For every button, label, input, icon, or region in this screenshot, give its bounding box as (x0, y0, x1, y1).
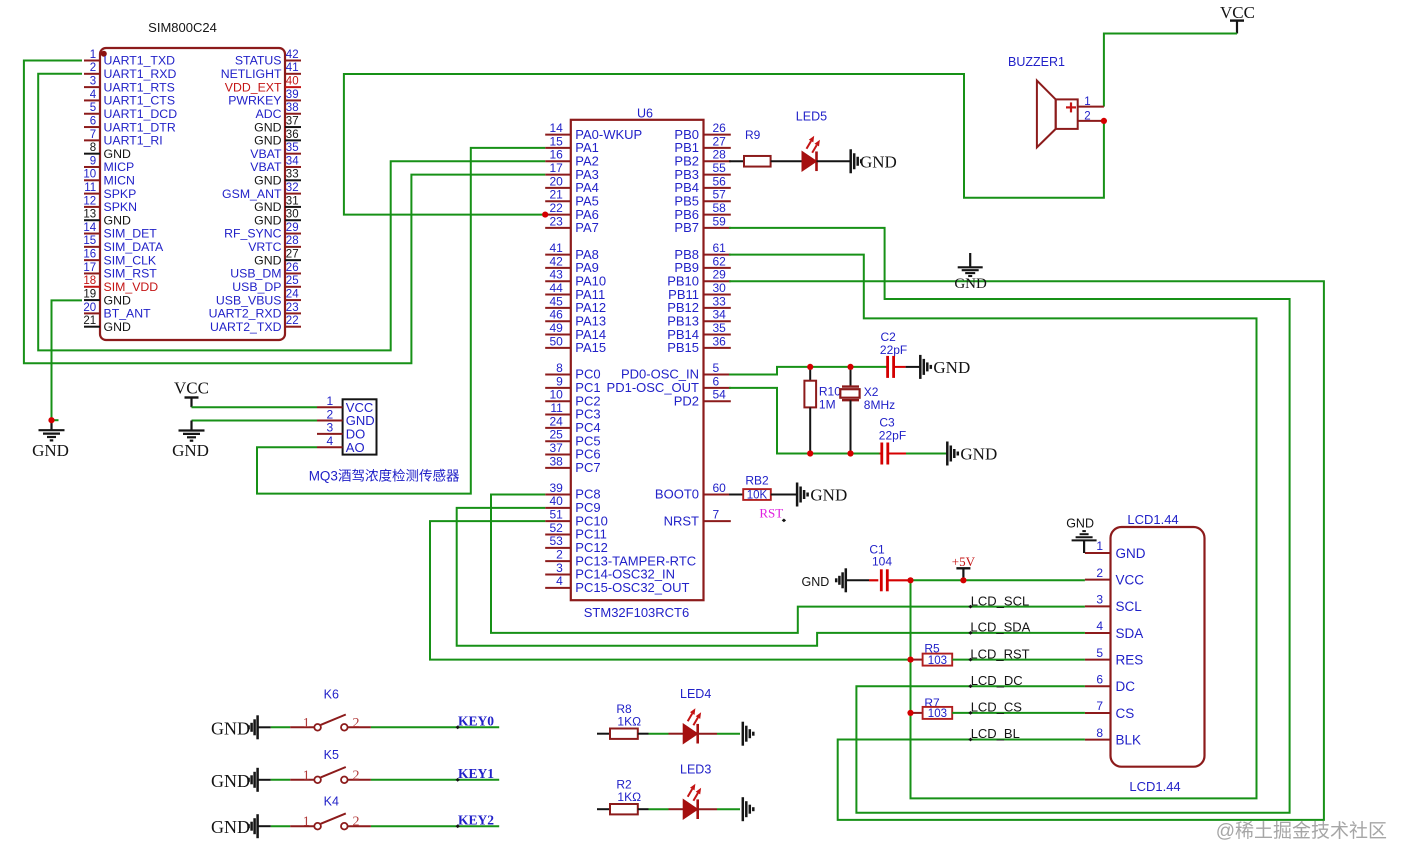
svg-text:21: 21 (549, 188, 563, 202)
svg-text:20: 20 (83, 302, 96, 314)
svg-text:22pF: 22pF (880, 343, 907, 357)
svg-text:27: 27 (713, 134, 727, 148)
svg-text:7: 7 (713, 508, 720, 522)
wire LCD BLK to PB10 (729, 281, 1324, 820)
svg-text:LED5: LED5 (796, 109, 827, 123)
wire switch K5 to net KEY1 (371, 779, 499, 781)
svg-text:RST: RST (759, 506, 783, 521)
svg-text:36: 36 (713, 334, 727, 348)
wire R9 to LED5 (771, 160, 802, 162)
wire PB2 to R9 (729, 160, 744, 162)
svg-text:52: 52 (549, 521, 563, 535)
svg-text:7: 7 (90, 129, 96, 141)
svg-text:ADC: ADC (256, 107, 282, 121)
svg-text:4: 4 (1096, 619, 1103, 633)
svg-text:USB_DP: USB_DP (232, 280, 281, 294)
capacitor C1 104 (869, 543, 911, 592)
svg-text:GND: GND (104, 293, 131, 307)
wire PA1 to MQ3 AO (257, 148, 545, 494)
wire LED3 to GND (698, 808, 717, 810)
svg-text:33: 33 (286, 169, 299, 181)
wire UART1_RXD to PA2 (38, 74, 545, 351)
svg-text:39: 39 (549, 481, 563, 495)
resistor R7 103 (911, 696, 953, 720)
ground GND (floating, above PB10 wire) (954, 253, 987, 292)
svg-text:23: 23 (286, 302, 299, 314)
svg-text:1: 1 (326, 394, 333, 408)
svg-text:MICP: MICP (104, 160, 135, 174)
ground GND (LED5) (851, 149, 897, 173)
svg-text:37: 37 (549, 441, 563, 455)
svg-text:DC: DC (1116, 679, 1136, 694)
svg-text:GSM_ANT: GSM_ANT (222, 187, 282, 201)
svg-text:UART2_TXD: UART2_TXD (210, 320, 282, 334)
svg-text:11: 11 (84, 182, 96, 194)
svg-text:SCL: SCL (1116, 599, 1143, 614)
svg-text:10K: 10K (747, 490, 768, 502)
ground GND (BOOT0) (797, 483, 847, 507)
svg-text:PB7: PB7 (674, 220, 699, 235)
svg-text:GND: GND (211, 771, 250, 791)
svg-text:1M: 1M (819, 398, 836, 412)
svg-text:1KΩ: 1KΩ (617, 790, 641, 804)
svg-text:GND: GND (211, 718, 250, 738)
svg-text:51: 51 (549, 508, 563, 522)
junction R10 top (807, 364, 813, 370)
svg-text:GND: GND (1116, 546, 1146, 561)
junction at buzzer pin 2 (1101, 118, 1107, 124)
svg-text:17: 17 (549, 161, 563, 175)
ground GND (switch K5) (211, 768, 258, 792)
svg-text:43: 43 (549, 268, 563, 282)
ground GND (C1, power ground) (802, 568, 846, 592)
svg-text:STM32F103RCT6: STM32F103RCT6 (584, 605, 689, 620)
net label KEY2 (456, 813, 495, 829)
svg-text:8: 8 (90, 142, 96, 154)
svg-text:1: 1 (1096, 539, 1103, 553)
svg-text:8MHz: 8MHz (864, 398, 895, 412)
svg-text:45: 45 (549, 294, 563, 308)
svg-text:33: 33 (713, 294, 727, 308)
wire BOOT0 to RB2 (729, 494, 743, 496)
svg-text:LCD_BL: LCD_BL (971, 726, 1020, 741)
svg-text:44: 44 (549, 281, 563, 295)
svg-text:30: 30 (286, 209, 299, 221)
svg-text:NETLIGHT: NETLIGHT (221, 67, 282, 81)
ground GND (MQ3) (172, 421, 209, 461)
wire PA6 to buzzer pin 2 (344, 74, 1104, 215)
svg-text:VCC: VCC (1116, 572, 1145, 587)
svg-text:7: 7 (1096, 699, 1103, 713)
svg-text:46: 46 (549, 308, 563, 322)
wire R7 to LCD CS (952, 712, 1085, 714)
svg-text:17: 17 (83, 262, 96, 274)
svg-text:SIM_VDD: SIM_VDD (104, 280, 159, 294)
svg-text:2: 2 (556, 548, 563, 562)
svg-text:UART1_DCD: UART1_DCD (104, 107, 178, 121)
svg-text:19: 19 (83, 288, 96, 300)
svg-text:2: 2 (353, 768, 360, 783)
svg-text:GND: GND (960, 445, 997, 464)
svg-text:R9: R9 (745, 128, 761, 142)
svg-text:26: 26 (286, 262, 299, 274)
svg-text:K6: K6 (324, 687, 339, 701)
junction C1 / +5V rail (907, 577, 913, 583)
power port VCC (top right) (1220, 3, 1255, 34)
junction at SIM GND stem (48, 417, 54, 423)
svg-text:GND: GND (254, 253, 281, 267)
wire rail C1 junction down to PB8 loop (729, 255, 1256, 799)
svg-text:UART1_RXD: UART1_RXD (104, 67, 177, 81)
capacitor C3 22pF (879, 416, 906, 465)
junction +5V stem (960, 577, 966, 583)
svg-text:SPKN: SPKN (104, 200, 138, 214)
ground GND (C3) (947, 442, 997, 466)
svg-text:GND: GND (860, 152, 897, 171)
svg-text:VBAT: VBAT (250, 147, 282, 161)
svg-text:PA15: PA15 (575, 340, 606, 355)
svg-text:NRST: NRST (664, 513, 699, 528)
svg-text:GND: GND (254, 173, 281, 187)
svg-text:GND: GND (254, 200, 281, 214)
svg-text:24: 24 (549, 414, 563, 428)
svg-text:BUZZER1: BUZZER1 (1008, 55, 1065, 69)
svg-text:BLK: BLK (1116, 732, 1142, 747)
svg-text:5: 5 (713, 361, 720, 375)
svg-text:PA7: PA7 (575, 220, 599, 235)
wire PD1 to oscillator bottom rail (729, 388, 879, 454)
svg-text:PD2: PD2 (674, 393, 699, 408)
power port VCC (MQ3) (174, 379, 209, 408)
svg-text:LED4: LED4 (680, 687, 711, 701)
svg-text:AO: AO (346, 440, 365, 455)
svg-text:38: 38 (549, 454, 563, 468)
svg-text:GND: GND (954, 276, 987, 292)
ground (for LED3) (743, 797, 754, 821)
net label LCD_RST (968, 646, 1029, 661)
svg-text:GND: GND (211, 817, 250, 837)
wire VCC to MQ3 pin1 (192, 406, 318, 408)
svg-text:42: 42 (549, 254, 563, 268)
net label KEY0 (456, 714, 495, 730)
ground GND (switch K6) (211, 715, 258, 739)
svg-text:1: 1 (303, 768, 310, 783)
svg-text:LCD_DC: LCD_DC (971, 673, 1023, 688)
svg-text:5: 5 (1096, 646, 1103, 660)
net label LCD_BL (968, 726, 1020, 741)
svg-text:1: 1 (90, 49, 96, 61)
svg-text:KEY2: KEY2 (458, 813, 494, 828)
svg-text:RES: RES (1116, 652, 1144, 667)
wire LED5 to GND (817, 160, 851, 162)
svg-text:55: 55 (713, 161, 727, 175)
capacitor C2 22pF (880, 330, 907, 378)
svg-text:GND: GND (104, 213, 131, 227)
svg-text:22: 22 (286, 315, 299, 327)
wire GND to switch K5 (258, 779, 271, 781)
svg-text:22pF: 22pF (879, 429, 906, 443)
svg-text:KEY0: KEY0 (458, 714, 494, 729)
module SIM800C24 (83, 20, 301, 340)
ground GND (SIM pin19) (32, 420, 69, 460)
power port +5V (952, 554, 976, 581)
net label RST on NRST pin (759, 506, 786, 523)
svg-text:53: 53 (549, 534, 563, 548)
svg-text:LCD_SDA: LCD_SDA (970, 620, 1030, 635)
junction R10 bottom (807, 450, 813, 456)
svg-text:6: 6 (713, 374, 720, 388)
svg-text:UART1_CTS: UART1_CTS (104, 94, 176, 108)
svg-text:LCD_SCL: LCD_SCL (971, 593, 1030, 608)
svg-text:42: 42 (286, 49, 299, 61)
svg-text:34: 34 (713, 308, 727, 322)
wire C3 to GND (906, 453, 947, 455)
svg-text:31: 31 (286, 195, 299, 207)
svg-text:PC7: PC7 (575, 460, 600, 475)
svg-text:103: 103 (928, 708, 947, 720)
svg-text:PC15-OSC32_OUT: PC15-OSC32_OUT (575, 580, 689, 595)
svg-text:15: 15 (549, 134, 563, 148)
svg-text:2: 2 (90, 62, 96, 74)
resistor R5 103 (911, 642, 953, 667)
svg-text:LCD_RST: LCD_RST (970, 646, 1029, 661)
svg-text:56: 56 (713, 174, 727, 188)
wire GND to switch K6 (258, 726, 271, 728)
wire SIM pin19 GND to ground (52, 300, 83, 420)
junction X2 bottom (847, 450, 853, 456)
svg-text:K4: K4 (324, 795, 339, 809)
crystal X2 8MHz (840, 367, 895, 454)
wire GND to C1 (846, 579, 869, 581)
svg-text:32: 32 (286, 182, 299, 194)
buzzer BUZZER1 (1008, 55, 1104, 147)
svg-text:41: 41 (286, 62, 299, 74)
wire PC10 to R5 (430, 521, 911, 659)
svg-text:BOOT0: BOOT0 (655, 487, 699, 502)
resistor R10 1M (804, 367, 841, 454)
svg-text:57: 57 (713, 188, 727, 202)
svg-text:58: 58 (713, 201, 727, 215)
svg-text:50: 50 (549, 334, 563, 348)
wire LED4 to GND (698, 733, 717, 735)
svg-text:SIM_DATA: SIM_DATA (104, 240, 164, 254)
svg-text:VRTC: VRTC (248, 240, 281, 254)
net label LCD_SCL (968, 593, 1029, 608)
switch K5 (290, 748, 371, 784)
net label LCD_DC (968, 673, 1022, 688)
svg-text:20: 20 (549, 174, 563, 188)
svg-text:23: 23 (549, 214, 563, 228)
net label KEY1 (456, 766, 495, 782)
junction X2 top (847, 364, 853, 370)
svg-text:VBAT: VBAT (250, 160, 282, 174)
wire R2 to LED3 (638, 808, 649, 810)
svg-text:28: 28 (713, 148, 727, 162)
sensor MQ3 module (309, 394, 460, 484)
svg-text:27: 27 (286, 249, 299, 261)
svg-text:3: 3 (556, 561, 563, 575)
resistor R9 (744, 128, 771, 166)
microcontroller U6 STM32F103RCT6 (545, 107, 731, 621)
svg-text:16: 16 (83, 249, 96, 261)
svg-text:PB15: PB15 (667, 340, 699, 355)
svg-text:21: 21 (83, 315, 96, 327)
junction R7 left (907, 710, 913, 716)
svg-text:22: 22 (549, 201, 563, 215)
svg-text:K5: K5 (324, 748, 339, 762)
svg-text:UART1_TXD: UART1_TXD (104, 54, 176, 68)
svg-text:49: 49 (549, 321, 563, 335)
svg-text:1: 1 (303, 716, 310, 731)
svg-text:GND: GND (32, 441, 69, 460)
wire RB2 to GND (771, 494, 797, 496)
resistor R8 1K (610, 702, 641, 739)
svg-text:14: 14 (83, 222, 96, 234)
svg-text:LCD1.44: LCD1.44 (1127, 512, 1178, 527)
wire lead to resistor R2 (597, 808, 610, 810)
svg-text:VCC: VCC (1220, 3, 1255, 22)
wire PC8 to LCD SCL (491, 495, 1085, 633)
ground GND (switch K4) (211, 814, 258, 838)
svg-text:GND: GND (810, 486, 847, 505)
svg-text:8: 8 (1096, 726, 1103, 740)
svg-text:6: 6 (90, 115, 96, 127)
svg-text:40: 40 (549, 494, 563, 508)
ground (for LED4) (743, 722, 754, 746)
svg-text:10: 10 (83, 169, 96, 181)
svg-text:2: 2 (326, 407, 333, 421)
svg-text:15: 15 (83, 235, 96, 247)
svg-text:GND: GND (1066, 517, 1094, 531)
wire switch K4 to net KEY2 (371, 825, 499, 827)
net label LCD_SDA (968, 620, 1030, 635)
svg-text:+5V: +5V (952, 554, 976, 569)
svg-text:SIM_DET: SIM_DET (104, 227, 158, 241)
svg-text:13: 13 (83, 209, 96, 221)
svg-text:@稀土掘金技术社区: @稀土掘金技术社区 (1216, 820, 1387, 842)
svg-text:1: 1 (1084, 96, 1090, 108)
svg-text:25: 25 (286, 275, 299, 287)
svg-text:UART1_RI: UART1_RI (104, 134, 163, 148)
svg-text:38: 38 (286, 102, 299, 114)
svg-text:30: 30 (713, 281, 727, 295)
svg-text:9: 9 (90, 155, 96, 167)
svg-text:SIM800C24: SIM800C24 (148, 20, 217, 35)
wire GND to switch K4 (258, 825, 271, 827)
svg-text:8: 8 (556, 361, 563, 375)
svg-text:18: 18 (83, 275, 96, 287)
svg-text:4: 4 (326, 434, 333, 448)
svg-text:GND: GND (933, 358, 970, 377)
wire PD0 to oscillator top rail (729, 367, 886, 375)
svg-text:2: 2 (1096, 566, 1103, 580)
svg-text:1: 1 (303, 815, 310, 830)
display connector LCD1.44 (1085, 512, 1205, 794)
svg-text:SIM_CLK: SIM_CLK (104, 253, 157, 267)
svg-text:GND: GND (104, 147, 131, 161)
wire PC9 to LCD SDA (457, 508, 1085, 646)
svg-text:LED3: LED3 (680, 763, 711, 777)
svg-text:54: 54 (713, 388, 727, 402)
svg-text:62: 62 (713, 254, 727, 268)
switch K6 (290, 687, 371, 731)
ground GND (C2) (920, 355, 970, 379)
svg-text:GND: GND (802, 575, 830, 589)
svg-text:9: 9 (556, 374, 563, 388)
svg-text:PWRKEY: PWRKEY (228, 94, 281, 108)
LED LED5 (796, 109, 827, 171)
svg-text:LCD_CS: LCD_CS (971, 700, 1023, 715)
svg-text:GND: GND (172, 441, 209, 460)
wire LCD DC to PB7 (729, 228, 1290, 813)
svg-text:16: 16 (549, 148, 563, 162)
svg-text:RF_SYNC: RF_SYNC (224, 227, 282, 241)
svg-text:4: 4 (556, 574, 563, 588)
LED LED4 (680, 687, 711, 744)
svg-text:4: 4 (90, 89, 97, 101)
switch K4 (290, 795, 371, 830)
wire lead to resistor R8 (597, 733, 610, 735)
svg-text:3: 3 (90, 76, 96, 88)
wire UART1_TXD to PA3 (24, 61, 545, 364)
svg-text:60: 60 (713, 481, 727, 495)
junction on PA6 pin (542, 211, 548, 217)
svg-text:USB_VBUS: USB_VBUS (216, 293, 282, 307)
svg-text:25: 25 (549, 428, 563, 442)
svg-text:CS: CS (1116, 706, 1135, 721)
svg-text:BT_ANT: BT_ANT (104, 307, 152, 321)
svg-text:GND: GND (104, 320, 131, 334)
svg-text:11: 11 (550, 401, 563, 415)
svg-text:5: 5 (90, 102, 96, 114)
svg-text:37: 37 (286, 115, 299, 127)
svg-text:VCC: VCC (174, 379, 209, 398)
svg-text:GND: GND (254, 213, 281, 227)
svg-text:59: 59 (713, 214, 727, 228)
svg-text:41: 41 (549, 241, 563, 255)
svg-text:29: 29 (286, 222, 299, 234)
svg-text:KEY1: KEY1 (458, 766, 494, 781)
svg-text:14: 14 (549, 121, 563, 135)
resistor RB2 10K (743, 473, 771, 501)
svg-text:SDA: SDA (1116, 626, 1144, 641)
svg-text:USB_DM: USB_DM (230, 267, 281, 281)
svg-text:MQ3酒驾浓度检测传感器: MQ3酒驾浓度检测传感器 (309, 468, 460, 484)
wire MQ3 pin2 to GND (192, 420, 318, 422)
wire R8 to LED4 (638, 733, 649, 735)
svg-text:34: 34 (286, 155, 299, 167)
svg-text:U6: U6 (637, 107, 653, 121)
svg-text:2: 2 (353, 716, 360, 731)
svg-text:39: 39 (286, 89, 299, 101)
svg-text:10: 10 (549, 388, 563, 402)
svg-text:UART2_RXD: UART2_RXD (209, 307, 282, 321)
svg-text:6: 6 (1096, 673, 1103, 687)
svg-text:GND: GND (254, 134, 281, 148)
wire +5V rail to LCD VCC (911, 579, 1085, 581)
svg-text:2: 2 (1084, 111, 1090, 123)
svg-text:LCD1.44: LCD1.44 (1129, 779, 1180, 794)
svg-text:3: 3 (326, 421, 333, 435)
svg-text:GND: GND (254, 120, 281, 134)
svg-text:12: 12 (83, 195, 96, 207)
svg-text:STATUS: STATUS (235, 54, 282, 68)
svg-text:28: 28 (286, 235, 299, 247)
svg-text:MICN: MICN (104, 173, 135, 187)
svg-text:SPKP: SPKP (104, 187, 137, 201)
svg-text:104: 104 (872, 555, 892, 569)
svg-text:VDD_EXT: VDD_EXT (225, 80, 282, 94)
